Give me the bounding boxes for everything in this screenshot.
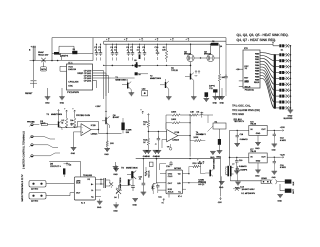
ground R9 [104, 149, 110, 157]
svg-text:GND: GND [256, 132, 261, 135]
svg-text:D4: D4 [114, 196, 116, 199]
wire bottom out rail [230, 176, 261, 181]
capacitor C8 + resistor R1 [137, 44, 147, 61]
svg-text:D1: D1 [281, 49, 283, 52]
capacitor C15 out [272, 157, 287, 179]
label vertical mmbt2 [213, 158, 216, 169]
IC4 right pins [183, 173, 190, 189]
power arrows second stage [140, 108, 149, 120]
power plug P2 [29, 193, 74, 203]
svg-text:MMBT3906: MMBT3906 [51, 113, 63, 116]
capacitor C14 [198, 112, 210, 118]
testpoint text TP1 [232, 105, 251, 108]
LED row 6 [276, 77, 292, 80]
svg-text:CP1/A2: CP1/A2 [84, 75, 92, 78]
svg-text:C18: C18 [240, 133, 243, 136]
transformer T7 core [225, 163, 235, 177]
svg-text:+12V: +12V [280, 154, 286, 157]
label same pinout [198, 178, 206, 185]
svg-text:5W: 5W [126, 131, 129, 134]
transistor T8 MMBT3904 [121, 167, 138, 179]
svg-text:CP/CLKIN: CP/CLKIN [68, 81, 78, 84]
transistor T1 MMBT3904 [115, 76, 131, 90]
transistor Q9 arrow [116, 188, 122, 193]
svg-text:0.68MFD: 0.68MFD [240, 138, 248, 141]
svg-text:GND: GND [220, 101, 225, 104]
svg-text:300K: 300K [198, 162, 204, 165]
ground below T8 [132, 194, 138, 206]
IC6 output wire [267, 126, 285, 131]
resistor R15 100K [166, 118, 190, 129]
battery input terminal J1 [29, 46, 36, 61]
regulator IC6 78L05 [249, 121, 267, 136]
capacitor mid column [141, 158, 147, 195]
svg-text:100K: 100K [171, 110, 177, 113]
opamp feedback loop [78, 121, 100, 130]
label control terminals [23, 131, 26, 169]
resistor R7 2.2M [62, 108, 68, 128]
capacitor C11 opt [204, 44, 228, 101]
IC6 input wire [230, 130, 249, 166]
svg-text:R25: R25 [151, 186, 154, 189]
svg-text:GND: GND [97, 206, 102, 209]
transistor Q8 dark [63, 168, 65, 177]
ground C13 [156, 151, 162, 159]
ground top right of IC3 [113, 165, 119, 176]
svg-text:BLK0005: BLK0005 [284, 117, 294, 120]
resistor R5 black bar [111, 72, 148, 78]
IC4 bottom pins [161, 194, 169, 205]
LED row 4 [276, 65, 292, 68]
op IC5 driver [243, 47, 260, 88]
svg-text:Q4, Q7 - HEAT SINK REQ.: Q4, Q7 - HEAT SINK REQ. [237, 38, 277, 42]
LED row 9 [276, 94, 292, 97]
note heat sink 1 [237, 33, 289, 37]
resistor small upper [139, 167, 151, 181]
svg-text:HOLD 43V: HOLD 43V [38, 53, 49, 56]
svg-text:1M: 1M [70, 119, 73, 122]
ground T1 [129, 90, 135, 96]
power tap arrow 1 [106, 38, 110, 41]
power tap arrow 4 [155, 38, 159, 41]
capacitor C2 C3 [94, 44, 102, 61]
resistor R5 100R [40, 120, 55, 126]
power plug P1 [29, 181, 74, 191]
svg-text:GND: GND [272, 176, 277, 179]
svg-text:AS Q2: AS Q2 [198, 183, 205, 186]
svg-text:GND: GND [113, 173, 118, 176]
svg-text:MMBT3906: MMBT3906 [119, 177, 122, 189]
resistor R12 [143, 121, 149, 133]
fuse F2 on bus [211, 40, 223, 48]
svg-text:TIP125: TIP125 [171, 69, 179, 72]
svg-text:MOV: MOV [41, 68, 46, 71]
wire +15V bus A [104, 38, 226, 45]
wire mosfet drains up [190, 44, 211, 55]
svg-text:+15: +15 [68, 164, 71, 167]
wire to IC4 left [151, 183, 166, 199]
transistor T2 MMBT3904 [150, 75, 169, 90]
connector pin P4 [280, 184, 295, 194]
capacitor C10 + resistor R2 [155, 44, 168, 62]
capacitor below T8 [131, 178, 135, 191]
svg-text:CLKI: CLKI [168, 175, 173, 178]
svg-text:+15V: +15V [280, 126, 286, 129]
ground IC4 top [210, 150, 216, 159]
svg-text:2N3904: 2N3904 [196, 133, 204, 136]
power arrow Q6 [105, 111, 107, 117]
transistor Q3 IRFZ44 [204, 50, 214, 61]
wire IC4 out right [189, 174, 206, 184]
connector ctrl 3 [29, 144, 58, 148]
svg-text:IC 1: IC 1 [68, 61, 73, 64]
svg-text:GND: GND [219, 186, 224, 189]
transistor T3 MMBT3906 [46, 110, 62, 131]
connector pair J2 [271, 180, 285, 184]
ground IC1 left [59, 88, 65, 104]
svg-text:GND: GND [104, 153, 109, 156]
svg-text:14K: 14K [190, 110, 194, 113]
resistor R10 power dark [121, 118, 132, 134]
IC3 right pins [95, 179, 101, 197]
buzzer BZ1 [213, 88, 225, 104]
opamp IC2C [148, 130, 179, 149]
wire vertical mid-right [189, 115, 191, 157]
svg-text:ACLG: ACLG [168, 190, 174, 193]
ground T8 left [113, 162, 119, 170]
svg-text:+5: +5 [161, 202, 163, 205]
svg-text:MMBT3904: MMBT3904 [126, 167, 138, 170]
transistor Q2 IRFZ44 [184, 50, 194, 61]
svg-text:0.68MFD: 0.68MFD [239, 165, 247, 168]
svg-text:IC2B: IC2B [91, 124, 96, 127]
resistor cap pair right [152, 159, 160, 194]
fuse F3 transf [261, 177, 270, 183]
wire Q drain rail [190, 62, 192, 74]
svg-text:CUR: CUR [76, 182, 81, 185]
relay K1 [213, 118, 245, 139]
resistor R18 [189, 162, 203, 174]
svg-text:MMBT3904: MMBT3904 [115, 78, 127, 81]
svg-text:MAIN TERMINALS 117V: MAIN TERMINALS 117V [21, 174, 24, 201]
transistor Q6 BU407 [102, 114, 120, 134]
svg-text:GND: GND [278, 199, 283, 202]
ground IC3 [97, 199, 103, 209]
diode D9 [109, 180, 113, 188]
resistor R14 100K [166, 110, 180, 129]
svg-text:GND: GND [45, 101, 50, 104]
svg-text:6 MFD: 6 MFD [280, 166, 287, 169]
svg-text:GND: GND [255, 175, 260, 178]
wire between mosfets [194, 57, 219, 58]
connector probe [27, 121, 39, 127]
power tap arrow 5 [170, 38, 174, 41]
ground output [277, 191, 283, 203]
svg-text:GND: GND [133, 203, 138, 206]
capacitor C13 out [272, 130, 287, 151]
svg-text:BU407: BU407 [113, 116, 120, 119]
LED row 3 [276, 59, 292, 62]
transistor Q10 bar [128, 179, 132, 186]
svg-text:OUT: OUT [261, 155, 266, 158]
LED common wire [289, 46, 291, 110]
svg-text:R3: R3 [134, 59, 136, 62]
connector ctrl 4 [29, 153, 60, 158]
svg-text:B-: B- [91, 189, 93, 192]
wire +15V bus B [104, 41, 218, 44]
svg-text:GND: GND [272, 149, 277, 152]
svg-text:CP1/A4: CP1/A4 [84, 80, 92, 83]
diode D12 [233, 187, 255, 191]
LED row 1 [273, 44, 291, 47]
svg-text:VREF CP1/A1: VREF CP1/A1 [77, 72, 92, 75]
svg-text:C21: C21 [158, 196, 161, 199]
svg-text:GND: GND [60, 101, 65, 104]
svg-text:+15V: +15V [95, 105, 101, 108]
LED row 2 [276, 53, 292, 56]
testpoint text TP2 [232, 109, 260, 112]
diode D10 x [114, 185, 129, 198]
opamp IC2B [76, 114, 98, 136]
varistor MOV1 [38, 51, 49, 71]
svg-text:BLK: BLK [292, 181, 295, 185]
IC5 output fan wires [260, 53, 274, 108]
svg-text:1N4007 600V: 1N4007 600V [242, 188, 256, 191]
capacitor C16 [236, 166, 248, 181]
svg-text:LM324: LM324 [91, 132, 98, 135]
fuse F1 2 AMPS [52, 52, 72, 58]
ground under reset area [45, 88, 51, 104]
ground R13 [146, 151, 152, 159]
svg-text:GND: GND [288, 114, 293, 117]
power arrows IC4 [197, 159, 204, 164]
IC7 input wire [229, 157, 249, 174]
svg-text:CIRCUIT =: CIRCUIT = [50, 165, 62, 168]
resistor R9 [106, 133, 114, 148]
wire neg supply [218, 157, 223, 204]
wire rail to gates [103, 65, 190, 67]
testpoint TP2 circle [167, 144, 172, 150]
svg-text:GND: GND [113, 210, 118, 213]
transistor Q11 [205, 169, 213, 176]
wire probe line to opamp [59, 127, 78, 130]
ground C16 [235, 182, 241, 190]
ground Q9 [113, 202, 119, 213]
svg-text:117VAC: 117VAC [31, 200, 39, 203]
svg-text:GND: GND [143, 155, 148, 158]
svg-text:TP1: OSC. CAL.: TP1: OSC. CAL. [232, 105, 251, 108]
label vertical mmbt [119, 177, 122, 189]
svg-text:100K: 100K [193, 136, 199, 139]
resistor R4 black bar [135, 64, 142, 67]
svg-text:MT880: MT880 [174, 167, 181, 170]
LED row label [281, 49, 283, 52]
switch S1 bypass loop [59, 46, 77, 54]
svg-text:R24 10K: R24 10K [147, 170, 150, 178]
power arrows +15V pair [195, 71, 201, 78]
wire opamp minus to ground [71, 132, 78, 155]
wire main input rail [30, 60, 94, 62]
svg-text:CP1/A0: CP1/A0 [84, 69, 92, 72]
IC7 output wire [267, 154, 285, 159]
svg-text:OUT: OUT [261, 128, 266, 131]
wire Q1 emitter to ground [191, 81, 197, 100]
LED bus bar [274, 54, 276, 108]
svg-text:OSC: OSC [68, 84, 73, 87]
svg-text:WHT: WHT [292, 188, 295, 193]
capacitor C12 at opamp input [70, 123, 77, 127]
note box D8 [49, 161, 80, 177]
wire fb node [180, 114, 191, 123]
svg-text:PIC16C5x: PIC16C5x [245, 89, 254, 92]
svg-text:OUT: OUT [168, 182, 173, 185]
resistor R8 1M [70, 108, 76, 128]
transistor Q1 TIP125 [171, 66, 194, 80]
svg-text:PROBE: PROBE [27, 121, 35, 124]
svg-text:2 METER CONTROL TERMINALS: 2 METER CONTROL TERMINALS [23, 131, 26, 169]
wire bottom rail [136, 158, 221, 160]
IC7 ground [255, 163, 261, 178]
svg-text:IC2B: IC2B [175, 131, 180, 134]
svg-text:TP3: GND: TP3: GND [232, 113, 244, 116]
transformer T5 [101, 178, 110, 188]
op IC4 MT8870 [166, 167, 183, 198]
label +15V mid [95, 105, 101, 108]
power tap arrow 3 [139, 38, 143, 41]
ground T2 [166, 89, 172, 100]
svg-text:LM324: LM324 [172, 138, 179, 141]
box small mid [149, 162, 153, 166]
svg-text:TDA1085: TDA1085 [83, 174, 93, 177]
wire bus right extension [226, 43, 273, 45]
svg-text:-15V: -15V [218, 201, 223, 204]
svg-text:GND: GND [210, 156, 215, 159]
resistor R6 [217, 44, 226, 99]
resistor R3 vertical dark [134, 59, 137, 68]
svg-text:GND: GND [153, 155, 158, 158]
note heat sink 2 [237, 38, 277, 42]
IC1 +5V arrow [59, 53, 63, 60]
svg-text:Tg: Tg [91, 195, 93, 198]
IC1 left pins [60, 66, 67, 71]
svg-text:100K: 100K [171, 118, 177, 121]
label cap value [241, 192, 255, 195]
svg-text:PROBE GAIN: PROBE GAIN [76, 114, 90, 117]
IC1 right pins [93, 71, 112, 100]
resistor R13 [143, 132, 149, 151]
svg-text:LED: LED [142, 88, 146, 91]
svg-text:117VAC: 117VAC [31, 188, 39, 191]
IC5 left pins [236, 67, 254, 92]
testpoint text TP3 [232, 113, 244, 116]
power tap arrow 2 [124, 38, 128, 41]
capacitor C13 0.1 [155, 131, 160, 151]
svg-text:OSC: OSC [245, 80, 250, 83]
svg-text:MMBT3904: MMBT3904 [213, 158, 216, 169]
LED row 5 [276, 71, 292, 74]
svg-text:2 AMPS: 2 AMPS [240, 168, 248, 171]
svg-text:CP1/A3: CP1/A3 [84, 77, 92, 80]
regulator IC7 78L05 [249, 148, 267, 163]
svg-text:PIC16F876: PIC16F876 [67, 91, 79, 94]
IC6 ground [255, 135, 261, 150]
svg-text:RB10: RB10 [254, 81, 260, 84]
connector LED1 small box [142, 88, 148, 96]
capacitor C4 C5 [110, 44, 118, 61]
ground pair mid-bottom 2 [153, 150, 159, 158]
LED top row feed [272, 42, 274, 46]
ground T7 [219, 176, 225, 189]
svg-text:.01: .01 [139, 178, 141, 181]
svg-text:GND: GND [256, 160, 261, 163]
wire to K1 area [203, 115, 213, 123]
svg-text:LM1819: LM1819 [68, 68, 76, 71]
svg-text:1%: 1% [196, 110, 199, 113]
LED row 8 [276, 89, 292, 92]
pushbutton PB1 RESET [25, 61, 37, 95]
capacitor C6 C7 [126, 44, 134, 61]
ground pair mid-bottom 1 [143, 150, 149, 158]
svg-text:GND: GND [213, 101, 218, 104]
connector pin P3 [285, 179, 295, 185]
LED row 11 [276, 106, 292, 109]
wire top rail +B [52, 38, 226, 61]
resistor R16 14K [190, 110, 199, 116]
svg-text:Q1, Q2, Q3, Q5 - HEAT SINK REQ: Q1, Q2, Q3, Q5 - HEAT SINK REQ. [237, 33, 289, 37]
svg-text:GND: GND [255, 147, 260, 150]
svg-text:6 MFD: 6 MFD [280, 139, 287, 142]
LED row 7 [276, 83, 292, 86]
op IC1 PIC16F876 [67, 61, 93, 93]
resistor R17 [178, 135, 205, 142]
label C14 [240, 186, 245, 189]
svg-text:Tg: Tg [178, 190, 180, 193]
svg-text:RESET: RESET [25, 92, 33, 95]
svg-text:GND: GND [71, 152, 76, 155]
svg-text:TP2: ALARM PINS (OD): TP2: ALARM PINS (OD) [232, 109, 260, 112]
label T4 SS [196, 131, 204, 136]
svg-text:10R: 10R [110, 142, 114, 145]
LED row 10 [276, 100, 292, 103]
wire long vertical from bus to Q6 [105, 44, 107, 111]
label line terminals [21, 174, 24, 201]
power tap arrow 6 [186, 38, 190, 41]
svg-text:0.1 MFD/400V: 0.1 MFD/400V [241, 192, 255, 195]
svg-text:TEST/RCV: TEST/RCV [234, 120, 245, 123]
transistor Q4 dark [216, 139, 222, 158]
wire from switch to C-rail [77, 38, 93, 61]
wire opamp out [98, 130, 121, 134]
connector ctrl 2 [29, 135, 55, 139]
svg-text:MCLR: MCLR [245, 85, 251, 88]
svg-text:C19: C19 [239, 159, 242, 162]
label +15V K1 [200, 126, 213, 136]
IC4 left pins [156, 161, 173, 183]
svg-text:MMBT3904: MMBT3904 [150, 77, 162, 80]
LED common ground [284, 110, 294, 120]
op IC3 line interface [74, 174, 95, 204]
